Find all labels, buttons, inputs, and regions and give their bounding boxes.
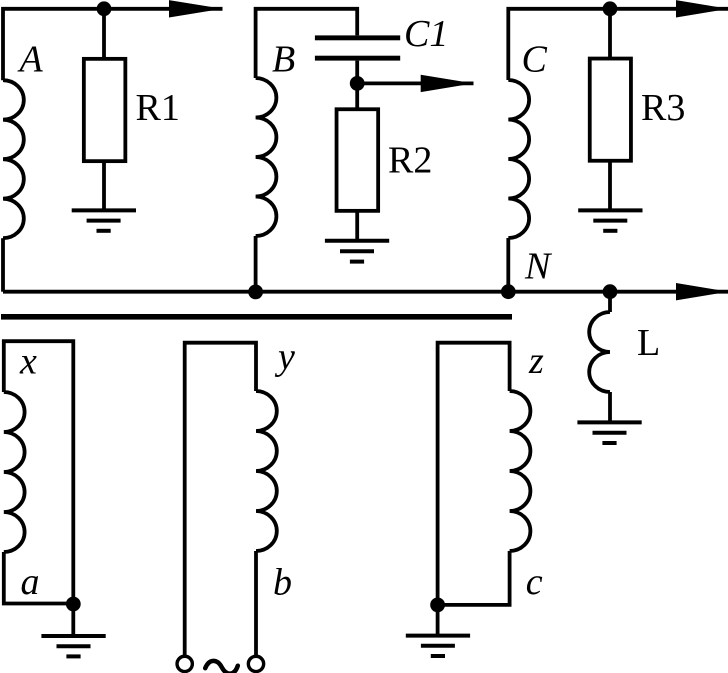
svg-text:A: A <box>17 39 44 81</box>
wire phase C top <box>508 9 728 80</box>
winding x outline <box>4 341 74 603</box>
winding C <box>508 80 529 238</box>
svg-text:C: C <box>522 39 548 81</box>
svg-text:a: a <box>21 561 40 603</box>
node dot a <box>66 597 81 612</box>
svg-text:b: b <box>273 562 292 604</box>
wire phase B top <box>256 9 358 78</box>
svg-text:R1: R1 <box>136 87 180 129</box>
wire phase A top <box>3 9 223 80</box>
wire y lower leg <box>254 551 258 656</box>
resistor R2 <box>337 109 379 211</box>
svg-text:z: z <box>528 340 544 382</box>
wire arrow IB <box>357 82 473 86</box>
ground Gz <box>406 636 470 656</box>
arrow IA <box>169 0 223 17</box>
wire R1 to ground <box>102 163 106 211</box>
inductor L <box>589 312 610 392</box>
wire B lower leg <box>254 236 258 292</box>
wire L upper leg <box>608 292 612 312</box>
wire neutral N <box>3 290 728 294</box>
wire L lower leg <box>608 392 612 422</box>
terminal circle left <box>177 656 192 671</box>
ground Gx <box>41 636 105 656</box>
wire a to ground <box>71 604 75 636</box>
winding z outline <box>438 343 510 605</box>
ground GL <box>577 422 641 443</box>
wire dot to R3 <box>608 9 612 59</box>
svg-text:C1: C1 <box>404 13 448 55</box>
resistor R1 <box>84 59 126 161</box>
wire dot to R1 <box>102 9 106 59</box>
winding y outline <box>185 343 256 657</box>
node dot B neutral <box>248 285 263 300</box>
wire cap to R2 <box>355 61 359 110</box>
arrow IC <box>676 0 728 17</box>
capacitor C1 <box>315 35 400 60</box>
svg-text:y: y <box>274 336 295 378</box>
node dot c <box>430 598 445 613</box>
arrow IB head <box>421 75 474 92</box>
svg-text:x: x <box>19 340 37 382</box>
svg-text:R3: R3 <box>641 87 685 129</box>
svg-text:L: L <box>637 322 660 364</box>
node dot A top <box>97 1 112 16</box>
svg-text:R2: R2 <box>388 139 432 181</box>
wire C lower leg <box>506 238 510 292</box>
svg-text:N: N <box>524 246 553 288</box>
node dot C top <box>603 1 618 16</box>
terminal circle right <box>248 656 263 671</box>
svg-text:c: c <box>526 561 543 603</box>
arrow IN <box>676 283 728 300</box>
winding z coil <box>510 391 531 551</box>
wire z bottom <box>438 551 510 605</box>
wire R3 to ground <box>608 161 612 211</box>
winding B <box>256 78 277 236</box>
winding A <box>3 80 24 238</box>
node dot N <box>501 284 516 299</box>
resistor R3 <box>590 59 631 161</box>
node dot B mid <box>350 76 365 91</box>
ground G2 <box>325 241 389 262</box>
winding x coil <box>4 392 25 552</box>
ground G1 <box>72 210 136 230</box>
wire R2 to ground <box>355 211 359 241</box>
node dot L <box>603 284 618 299</box>
svg-text:B: B <box>272 38 295 80</box>
wire A lower leg <box>1 238 5 292</box>
busbar <box>1 314 512 320</box>
wire x bottom <box>4 552 74 604</box>
ac source tilde <box>205 661 238 673</box>
wire c to ground <box>436 605 440 636</box>
winding y coil <box>256 391 277 551</box>
ground G3 <box>578 210 642 230</box>
